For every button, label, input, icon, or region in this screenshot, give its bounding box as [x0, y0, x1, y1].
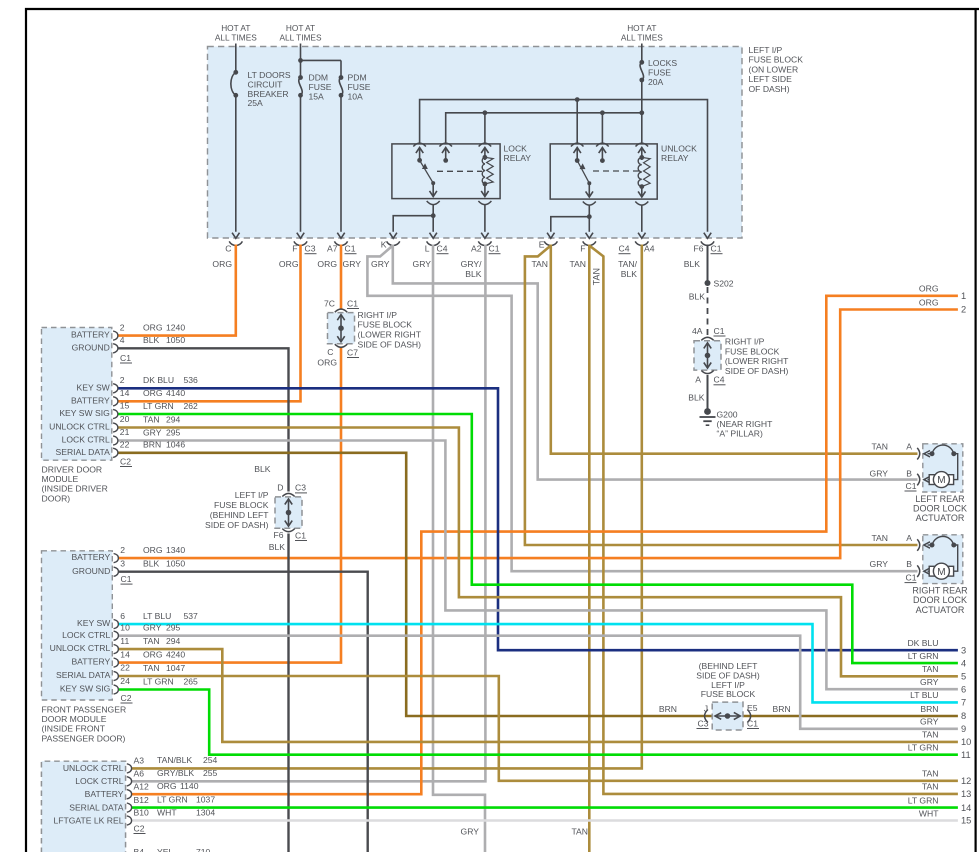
svg-text:A7: A7 [327, 244, 338, 254]
svg-text:WHT: WHT [919, 808, 939, 818]
wire BLK 1050 passenger ground [118, 572, 368, 852]
svg-text:SIDE OF DASH): SIDE OF DASH) [725, 366, 789, 376]
svg-text:LT GRN: LT GRN [908, 743, 939, 753]
svg-text:1240: 1240 [166, 322, 185, 332]
svg-text:TAN: TAN [922, 730, 939, 740]
svg-text:TAN/BLK: TAN/BLK [157, 755, 192, 765]
svg-text:21: 21 [120, 427, 130, 437]
svg-text:TAN: TAN [592, 268, 602, 285]
svg-text:DK BLU: DK BLU [143, 375, 174, 385]
svg-text:C1: C1 [345, 244, 356, 254]
svg-text:BATTERY: BATTERY [71, 657, 110, 667]
wire TAN from F pin to row 13 [589, 246, 958, 794]
svg-text:GRY: GRY [920, 677, 939, 687]
svg-text:A12: A12 [134, 781, 150, 791]
svg-text:2: 2 [120, 375, 125, 385]
connector J/E5 left I/P fuse block [712, 702, 743, 730]
front passenger door module box [42, 551, 113, 700]
svg-text:GROUND: GROUND [72, 566, 110, 576]
svg-text:L: L [425, 244, 430, 254]
svg-text:B: B [906, 468, 912, 478]
svg-text:GRY/: GRY/ [461, 259, 482, 269]
wire DDM to PDM branch [301, 59, 342, 61]
svg-text:15A: 15A [309, 91, 325, 101]
svg-text:13: 13 [961, 789, 971, 799]
wire BLK 4A to G200 [707, 375, 709, 410]
svg-text:GRY: GRY [413, 259, 432, 269]
svg-text:255: 255 [203, 768, 218, 778]
splice S202 [705, 280, 711, 286]
svg-text:7: 7 [961, 698, 966, 708]
svg-text:ALL TIMES: ALL TIMES [280, 33, 322, 43]
svg-text:DRIVER DOOR: DRIVER DOOR [42, 465, 103, 475]
svg-text:2: 2 [120, 322, 125, 332]
svg-text:LOCK: LOCK [504, 144, 528, 154]
svg-text:PASSENGER DOOR): PASSENGER DOOR) [42, 733, 126, 743]
wire TAN 1047 passenger serial data [118, 676, 958, 781]
svg-text:ORG: ORG [143, 649, 163, 659]
unlock relay dashed link [593, 170, 640, 172]
wire TAN 294 passenger unlock ctrl [118, 649, 958, 742]
fuse PDM 10A [340, 60, 342, 77]
wire WHT 1304 liftgate lock release [131, 819, 958, 821]
unlock relay pin bumps top [571, 143, 584, 146]
svg-text:10A: 10A [348, 91, 364, 101]
svg-text:22: 22 [120, 663, 130, 673]
svg-text:B4: B4 [134, 847, 145, 852]
svg-text:2: 2 [120, 545, 125, 555]
svg-text:A4: A4 [644, 244, 655, 254]
svg-text:3: 3 [120, 558, 125, 568]
svg-text:SERIAL DATA: SERIAL DATA [56, 670, 111, 680]
svg-text:FUSE BLOCK: FUSE BLOCK [725, 346, 780, 356]
svg-text:TAN: TAN [143, 663, 160, 673]
wire ORG 4240 via right I/P fuse block [340, 245, 343, 310]
svg-text:C1: C1 [714, 326, 725, 336]
ground G200 [704, 408, 711, 415]
fuse LOCKS 20A [641, 44, 643, 63]
svg-text:DK BLU: DK BLU [907, 638, 938, 648]
wire DK BLU 536 key switch [118, 388, 958, 650]
svg-text:25A: 25A [248, 98, 264, 108]
svg-text:ACTUATOR: ACTUATOR [916, 513, 965, 523]
svg-text:C2: C2 [120, 456, 131, 466]
svg-text:4140: 4140 [166, 388, 185, 398]
liftgate module box [42, 761, 126, 852]
svg-text:(ON LOWER: (ON LOWER [749, 64, 799, 74]
fuse DDM 15A [300, 44, 302, 78]
wire TAN from F pin down [588, 245, 591, 852]
wire GRY 295 driver lock ctrl [118, 441, 958, 690]
svg-text:BRN: BRN [659, 704, 677, 714]
svg-text:FRONT PASSENGER: FRONT PASSENGER [42, 705, 127, 715]
svg-text:22: 22 [120, 440, 130, 450]
svg-text:FUSE BLOCK: FUSE BLOCK [701, 689, 756, 699]
svg-text:LEFT I/P: LEFT I/P [749, 45, 783, 55]
svg-text:GRY: GRY [870, 559, 889, 569]
svg-text:10: 10 [120, 622, 130, 632]
svg-text:C1: C1 [121, 574, 132, 584]
wire bus line to relay switch pins [420, 100, 708, 232]
svg-text:LOCK CTRL: LOCK CTRL [62, 630, 110, 640]
svg-text:BRN: BRN [143, 440, 161, 450]
svg-text:ALL TIMES: ALL TIMES [621, 33, 663, 43]
wire TAN/BLK 254 from A4 pin [131, 245, 642, 769]
svg-text:A: A [906, 533, 912, 543]
svg-text:LFTGATE LK REL: LFTGATE LK REL [53, 815, 123, 825]
unlock relay box [550, 144, 657, 199]
svg-text:LT GRN: LT GRN [157, 794, 188, 804]
svg-text:LT BLU: LT BLU [910, 690, 938, 700]
wire BLK 1050 driver ground [118, 348, 289, 491]
wire GRY/BLK 255 from A2 pin [131, 245, 485, 782]
svg-text:KEY SW SIG: KEY SW SIG [60, 684, 111, 694]
svg-text:BLK: BLK [689, 292, 706, 302]
svg-text:C: C [225, 244, 231, 254]
svg-text:LEFT REAR: LEFT REAR [915, 494, 965, 504]
svg-text:F6: F6 [693, 244, 703, 254]
svg-text:BRN: BRN [773, 704, 791, 714]
svg-text:LT GRN: LT GRN [908, 795, 939, 805]
svg-text:8: 8 [961, 711, 966, 721]
svg-text:F: F [580, 244, 585, 254]
svg-text:HOT AT: HOT AT [221, 23, 250, 33]
svg-text:TAN: TAN [143, 636, 160, 646]
svg-text:D: D [277, 483, 283, 493]
svg-text:LOCK CTRL: LOCK CTRL [62, 435, 110, 445]
driver door module box [42, 328, 112, 461]
svg-text:M: M [937, 567, 945, 578]
svg-text:GRY: GRY [461, 827, 480, 837]
svg-text:TAN/: TAN/ [618, 259, 638, 269]
svg-text:C4: C4 [714, 375, 725, 385]
svg-text:294: 294 [166, 636, 181, 646]
svg-text:BATTERY: BATTERY [71, 330, 110, 340]
svg-text:RIGHT I/P: RIGHT I/P [358, 310, 398, 320]
wire TAN unlock to left rear door [551, 245, 918, 454]
svg-text:FUSE BLOCK: FUSE BLOCK [214, 500, 269, 510]
svg-text:LT GRN: LT GRN [143, 401, 174, 411]
lock relay pin bumps top [413, 143, 426, 146]
lock relay pin arrows top [419, 149, 421, 161]
wire BLK dashed S202 to 4A [707, 287, 709, 336]
svg-text:ORG: ORG [143, 322, 163, 332]
svg-text:C1: C1 [489, 244, 500, 254]
unlock relay switch [575, 158, 580, 163]
svg-text:A3: A3 [134, 756, 145, 766]
lock relay coil output pin [484, 184, 486, 196]
wire BRN 1046 serial data [118, 453, 958, 716]
svg-text:B12: B12 [134, 795, 150, 805]
svg-text:C1: C1 [295, 530, 306, 540]
unlock relay pin arrows top [576, 149, 578, 161]
svg-text:HOT AT: HOT AT [286, 23, 315, 33]
svg-text:ORG: ORG [143, 388, 163, 398]
svg-text:1047: 1047 [166, 663, 185, 673]
svg-text:7C: 7C [324, 298, 335, 308]
svg-text:1046: 1046 [166, 440, 185, 450]
svg-text:FUSE BLOCK: FUSE BLOCK [358, 320, 413, 330]
svg-text:FUSE BLOCK: FUSE BLOCK [749, 55, 804, 65]
svg-text:20A: 20A [648, 77, 664, 87]
svg-text:1037: 1037 [196, 794, 215, 804]
svg-text:DOOR LOCK: DOOR LOCK [913, 595, 967, 605]
svg-text:1140: 1140 [180, 781, 199, 791]
svg-text:TAN: TAN [922, 782, 939, 792]
svg-text:DOOR): DOOR) [42, 493, 71, 503]
left rear door lock actuator [923, 444, 963, 492]
svg-text:TAN: TAN [871, 442, 888, 452]
lock relay coil [483, 155, 488, 160]
svg-text:MODULE: MODULE [42, 474, 79, 484]
svg-text:2: 2 [961, 305, 966, 315]
svg-text:TAN: TAN [871, 533, 888, 543]
connector D/C3 left I/P fuse block [275, 497, 302, 528]
wire ORG row 2 to passenger battery [118, 310, 958, 559]
svg-text:TAN: TAN [143, 414, 160, 424]
svg-text:C2: C2 [121, 693, 132, 703]
svg-text:4: 4 [961, 658, 966, 668]
wire GRY 295 from L pin [433, 245, 485, 852]
svg-text:DOOR LOCK: DOOR LOCK [913, 503, 967, 513]
wire LT BLU 537 passenger key switch [118, 624, 958, 702]
circuit breaker LT DOORS 25A [235, 44, 237, 72]
svg-text:BLK: BLK [465, 269, 482, 279]
svg-text:C1: C1 [906, 481, 917, 491]
svg-text:C4: C4 [437, 244, 448, 254]
svg-text:RELAY: RELAY [504, 153, 532, 163]
svg-text:4240: 4240 [166, 649, 185, 659]
svg-text:SIDE OF DASH): SIDE OF DASH) [205, 520, 269, 530]
wire bus line to relay coil pins [446, 113, 642, 144]
svg-text:KEY SW: KEY SW [77, 618, 111, 628]
svg-text:(NEAR RIGHT: (NEAR RIGHT [717, 419, 774, 429]
svg-text:GRY: GRY [143, 427, 162, 437]
lock relay dashed link [437, 170, 482, 172]
svg-text:RIGHT I/P: RIGHT I/P [725, 337, 765, 347]
svg-text:14: 14 [120, 649, 130, 659]
svg-text:(BEHIND LEFT: (BEHIND LEFT [210, 510, 269, 520]
svg-text:F: F [292, 244, 297, 254]
svg-text:TAN: TAN [569, 259, 586, 269]
svg-text:E5: E5 [747, 703, 758, 713]
svg-text:SIDE OF DASH): SIDE OF DASH) [358, 340, 422, 350]
svg-text:C1: C1 [711, 244, 722, 254]
fuse block bottom pin arrows [232, 233, 239, 239]
svg-text:6: 6 [120, 611, 125, 621]
svg-text:710: 710 [196, 847, 211, 852]
svg-text:265: 265 [184, 676, 199, 686]
svg-text:BLK: BLK [269, 542, 286, 552]
svg-text:536: 536 [184, 375, 199, 385]
svg-text:HOT AT: HOT AT [627, 23, 656, 33]
svg-text:(LOWER RIGHT: (LOWER RIGHT [358, 330, 422, 340]
svg-text:1: 1 [961, 291, 966, 301]
svg-text:M: M [937, 475, 945, 486]
svg-text:20: 20 [120, 414, 130, 424]
fuse block bottom pin connectors [229, 241, 242, 245]
svg-text:ORG: ORG [157, 781, 177, 791]
svg-text:C3: C3 [305, 244, 316, 254]
svg-text:LT GRN: LT GRN [908, 651, 939, 661]
svg-text:10: 10 [961, 737, 971, 747]
svg-text:294: 294 [166, 414, 181, 424]
svg-text:262: 262 [184, 401, 199, 411]
svg-text:RELAY: RELAY [661, 153, 689, 163]
svg-text:F6: F6 [273, 530, 283, 540]
wire ORG row 1 to liftgate battery [131, 296, 958, 794]
svg-text:BRN: BRN [920, 704, 938, 714]
svg-text:C3: C3 [295, 483, 306, 493]
wire LT GRN 265 passenger key switch signal [118, 690, 958, 755]
svg-text:WHT: WHT [157, 807, 177, 817]
wire unlock relay output to E and F [588, 205, 590, 232]
svg-text:24: 24 [120, 676, 130, 686]
svg-text:DOOR MODULE: DOOR MODULE [42, 714, 107, 724]
svg-text:(LOWER RIGHT: (LOWER RIGHT [725, 356, 789, 366]
svg-text:1050: 1050 [166, 335, 185, 345]
svg-text:GRY/BLK: GRY/BLK [157, 768, 194, 778]
svg-text:537: 537 [184, 611, 199, 621]
svg-text:E: E [539, 240, 545, 250]
wire GRY 295 passenger lock ctrl [118, 636, 958, 729]
svg-text:ORG: ORG [919, 297, 939, 307]
unlock relay switch output pin [588, 183, 590, 196]
svg-text:BATTERY: BATTERY [71, 395, 110, 405]
svg-text:254: 254 [203, 755, 218, 765]
svg-text:SERIAL DATA: SERIAL DATA [56, 447, 111, 457]
svg-text:295: 295 [166, 623, 181, 633]
svg-text:GRY: GRY [371, 259, 390, 269]
svg-text:4: 4 [120, 335, 125, 345]
svg-text:BLK: BLK [254, 464, 271, 474]
svg-text:15: 15 [120, 401, 130, 411]
svg-text:BLK: BLK [688, 393, 705, 403]
svg-text:LT GRN: LT GRN [143, 676, 174, 686]
wire lock relay output to K and L [432, 205, 434, 232]
wire ORG 4140 driver battery 14 [118, 245, 301, 402]
svg-text:BLK: BLK [621, 269, 638, 279]
svg-text:OF DASH): OF DASH) [749, 84, 790, 94]
svg-text:12: 12 [961, 776, 971, 786]
svg-text:UNLOCK CTRL: UNLOCK CTRL [50, 643, 111, 653]
svg-text:UNLOCK: UNLOCK [661, 144, 697, 154]
svg-text:11: 11 [961, 750, 971, 760]
svg-text:ORG: ORG [317, 358, 337, 368]
svg-text:1050: 1050 [166, 559, 185, 569]
connector 4A/C1 right I/P fuse block [694, 341, 721, 370]
svg-text:“A” PILLAR): “A” PILLAR) [717, 429, 763, 439]
svg-text:J: J [704, 704, 708, 714]
svg-text:TAN: TAN [922, 664, 939, 674]
wire unlock coil to A4 [641, 205, 643, 232]
svg-text:15: 15 [961, 816, 971, 826]
svg-text:ORG: ORG [212, 259, 232, 269]
left I/P fuse block (dashed box) [208, 47, 743, 239]
svg-text:GROUND: GROUND [72, 342, 110, 352]
right rear door lock actuator [923, 535, 963, 584]
svg-text:14: 14 [120, 388, 130, 398]
svg-text:G200: G200 [717, 410, 738, 420]
svg-text:C: C [327, 347, 333, 357]
svg-text:ORG: ORG [919, 284, 939, 294]
svg-text:ORG: ORG [143, 545, 163, 555]
svg-text:BLK: BLK [684, 259, 701, 269]
svg-text:C4: C4 [619, 244, 630, 254]
unlock relay coil [639, 155, 644, 160]
svg-text:ALL TIMES: ALL TIMES [215, 33, 257, 43]
svg-text:A6: A6 [134, 769, 145, 779]
svg-text:YEL: YEL [157, 847, 173, 852]
svg-text:S202: S202 [714, 278, 734, 288]
lock relay box [392, 144, 500, 199]
svg-text:3: 3 [961, 645, 966, 655]
wire TAN unlock to right rear door [525, 246, 918, 546]
svg-text:C1: C1 [347, 298, 358, 308]
svg-text:RIGHT REAR: RIGHT REAR [912, 586, 968, 596]
svg-text:GRY: GRY [143, 623, 162, 633]
svg-text:(INSIDE FRONT: (INSIDE FRONT [42, 724, 106, 734]
svg-text:4A: 4A [692, 326, 703, 336]
svg-text:295: 295 [166, 427, 181, 437]
svg-text:B10: B10 [134, 808, 150, 818]
svg-text:K: K [381, 240, 387, 250]
svg-text:A: A [906, 442, 912, 452]
svg-text:TAN: TAN [531, 259, 548, 269]
svg-text:C1: C1 [120, 353, 131, 363]
svg-text:ACTUATOR: ACTUATOR [916, 605, 965, 615]
svg-text:C1: C1 [747, 718, 758, 728]
svg-text:C1: C1 [906, 572, 917, 582]
svg-text:9: 9 [961, 724, 966, 734]
connector 7C/C1 right I/P fuse block [328, 313, 355, 344]
svg-text:GRY: GRY [920, 717, 939, 727]
svg-text:LEFT SIDE: LEFT SIDE [749, 74, 793, 84]
svg-text:KEY SW SIG: KEY SW SIG [59, 408, 110, 418]
wire LT GRN 262 key switch signal [118, 414, 958, 663]
svg-text:C2: C2 [134, 823, 145, 833]
unlock relay coil output pin [641, 187, 643, 196]
svg-text:6: 6 [961, 684, 966, 694]
svg-text:SERIAL DATA: SERIAL DATA [69, 802, 124, 812]
svg-text:TAN: TAN [571, 827, 588, 837]
svg-text:BLK: BLK [143, 559, 160, 569]
wire ORG 1240 driver battery [118, 245, 236, 336]
svg-text:LOCK CTRL: LOCK CTRL [75, 776, 123, 786]
svg-text:1304: 1304 [196, 807, 215, 817]
svg-text:5: 5 [961, 672, 966, 682]
lock relay switch [417, 158, 422, 163]
svg-text:BATTERY: BATTERY [85, 789, 124, 799]
svg-text:TAN: TAN [922, 769, 939, 779]
wire BLK F6 to S202 [707, 245, 709, 284]
svg-text:A: A [695, 374, 701, 384]
svg-text:11: 11 [120, 636, 129, 646]
wire TAN 294 driver unlock ctrl [118, 428, 958, 677]
svg-text:1340: 1340 [166, 545, 185, 555]
svg-text:B: B [906, 559, 912, 569]
svg-text:BATTERY: BATTERY [71, 552, 110, 562]
svg-text:GRY: GRY [343, 259, 362, 269]
svg-text:LEFT I/P: LEFT I/P [235, 490, 269, 500]
wire GRY lock to left rear door [393, 245, 918, 480]
svg-text:UNLOCK CTRL: UNLOCK CTRL [49, 422, 110, 432]
svg-text:BLK: BLK [143, 335, 160, 345]
wire LT GRN 1037 liftgate serial data [131, 806, 958, 809]
lock relay switch output pin [432, 183, 434, 195]
svg-text:A2: A2 [471, 244, 482, 254]
svg-text:KEY SW: KEY SW [77, 382, 111, 392]
